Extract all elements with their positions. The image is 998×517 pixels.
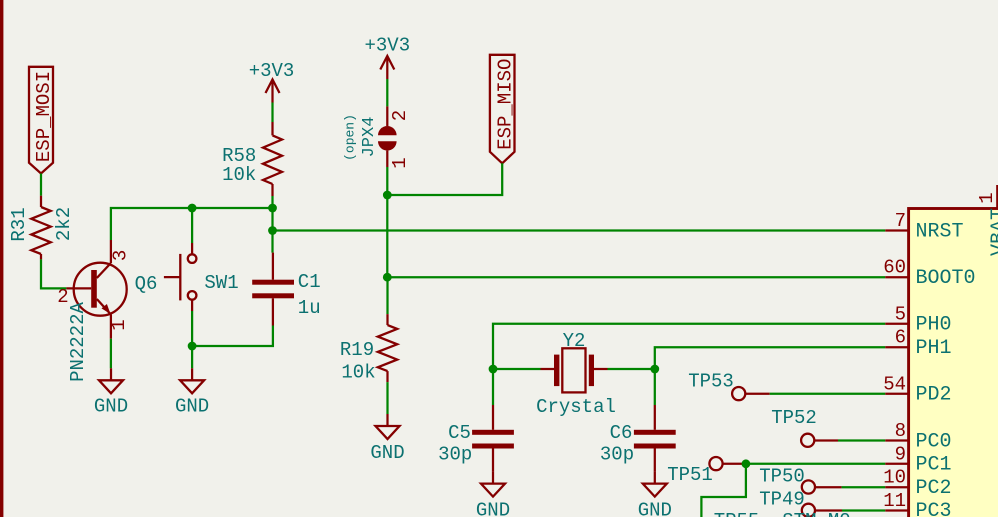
wire PH1 net to crystal right [655, 347, 886, 405]
svg-text:Q6: Q6 [135, 273, 158, 295]
svg-text:TP52: TP52 [771, 407, 817, 429]
svg-text:10k: 10k [341, 362, 375, 384]
svg-text:+3V3: +3V3 [249, 60, 295, 82]
wire +3V3 to JPX4 pin 2 [386, 79, 388, 106]
power +3V3 (above JPX4) [364, 35, 410, 80]
svg-text:TP53: TP53 [688, 371, 734, 393]
svg-text:PH1: PH1 [916, 337, 952, 360]
svg-text:GND: GND [476, 500, 510, 517]
svg-text:ESP_MISO: ESP_MISO [495, 59, 517, 150]
svg-text:10k: 10k [222, 164, 256, 186]
svg-text:SW1: SW1 [204, 272, 238, 294]
svg-text:R31: R31 [8, 207, 30, 241]
global label ESP_MISO [490, 55, 517, 164]
svg-text:54: 54 [883, 373, 906, 395]
wire NRST net [273, 229, 886, 231]
junction node crystal left [489, 365, 498, 374]
svg-text:PN2222A: PN2222A [67, 302, 89, 382]
sheet border left edge [0, 0, 3, 517]
wire TP52 to PC0 [838, 439, 885, 441]
svg-text:1: 1 [108, 319, 130, 330]
svg-text:9: 9 [895, 443, 906, 465]
wire TP53 to PD2 [770, 393, 886, 395]
junction node MISO tap [383, 191, 392, 200]
svg-text:Y2: Y2 [563, 330, 586, 352]
junction node R58 bottom [268, 204, 277, 213]
ground GND (C5) [476, 472, 510, 517]
svg-text:3: 3 [110, 250, 132, 261]
IC pin 10 PC2 [883, 467, 951, 500]
svg-text:C6: C6 [610, 422, 633, 444]
junction node NRST tap [268, 226, 277, 235]
svg-text:1: 1 [976, 192, 998, 203]
wire SW1 bottom to GND node [191, 311, 193, 368]
IC pin 60 BOOT0 [883, 257, 975, 290]
test point TP51 [667, 457, 746, 486]
wire crystal right stub [608, 368, 655, 370]
IC pin 7 NRST [885, 210, 963, 243]
IC pin 9 PC1 [885, 443, 951, 476]
crystal Y2 [536, 330, 616, 418]
label STM_M0 (partially cut at bottom) [782, 510, 850, 517]
svg-text:TP50: TP50 [759, 466, 805, 488]
wire TP50 to PC2 [842, 486, 886, 488]
wire BOOT0 net [387, 276, 885, 278]
svg-text:BOOT0: BOOT0 [916, 267, 976, 290]
svg-text:PD2: PD2 [916, 384, 952, 407]
svg-text:GND: GND [94, 396, 128, 418]
svg-text:(open): (open) [343, 114, 358, 161]
svg-text:1: 1 [389, 157, 411, 168]
svg-text:PH0: PH0 [916, 314, 952, 337]
wire TP49 to PC3 [842, 509, 885, 511]
svg-text:NRST: NRST [916, 220, 964, 243]
ground GND (R19) [370, 414, 404, 464]
IC pin 54 PD2 [883, 373, 951, 406]
ground GND (C6) [638, 472, 672, 517]
wire R19 to GND [386, 382, 388, 414]
svg-text:7: 7 [895, 210, 906, 232]
switch SW1 [164, 243, 239, 311]
junction node crystal right [650, 365, 659, 374]
IC pin 6 PH1 [885, 327, 951, 360]
junction node SW1 bottom [188, 342, 197, 351]
svg-text:+3V3: +3V3 [364, 35, 410, 57]
test point TP52 [771, 407, 838, 447]
svg-text:11: 11 [883, 490, 906, 512]
wire SW1 node to C1 bottom [192, 326, 273, 347]
svg-text:30p: 30p [600, 444, 634, 466]
svg-text:ESP_MOSI: ESP_MOSI [33, 71, 55, 162]
test point TP55 (partially cut at bottom) [714, 510, 760, 517]
svg-text:PC1: PC1 [916, 454, 952, 477]
test point TP49 [759, 489, 842, 517]
wire Q6 emitter to GND [110, 339, 112, 369]
wire TP51 to PC1 [746, 463, 885, 465]
svg-text:JPX4: JPX4 [360, 117, 379, 158]
wire ESP_MISO to node [387, 163, 502, 195]
svg-text:5: 5 [895, 303, 906, 325]
power +3V3 (above R58) [249, 60, 295, 103]
svg-text:R19: R19 [340, 339, 374, 361]
wire TP51 node down to sheet edge [701, 464, 746, 517]
IC pin 5 PH0 [885, 303, 951, 336]
wire R58 bottom through junctions to C1 [271, 196, 273, 253]
svg-text:TP51: TP51 [667, 464, 713, 486]
resistor R19 10k [340, 277, 397, 383]
svg-text:C5: C5 [448, 422, 471, 444]
resistor R31 2k2 [8, 196, 75, 260]
svg-text:1u: 1u [298, 297, 321, 319]
svg-text:10: 10 [883, 467, 906, 489]
capacitor C5 30p [438, 405, 514, 472]
wire Q6 collector to node row [111, 208, 273, 240]
wire crystal left stub [493, 368, 541, 370]
IC pin 1 VBAT (top, partially cut at right) [976, 185, 998, 256]
svg-text:PC0: PC0 [916, 430, 952, 453]
svg-text:8: 8 [895, 420, 906, 442]
ground GND (SW1) [175, 368, 209, 417]
IC pin 8 PC0 [885, 420, 951, 453]
capacitor C1 1u [252, 253, 320, 326]
test point TP53 [688, 371, 770, 401]
junction node SW1 top [188, 204, 197, 213]
wire JPX4 pin1 down to BOOT0 node [386, 167, 388, 277]
svg-text:PC3: PC3 [916, 500, 952, 517]
svg-text:60: 60 [883, 257, 906, 279]
svg-text:C1: C1 [298, 271, 321, 293]
junction node TP51 [742, 459, 751, 468]
IC U1 (STM32 MCU, partially visible at right edge) [909, 209, 998, 517]
ground GND (Q6 emitter) [94, 368, 128, 417]
svg-text:STM_M0: STM_M0 [782, 510, 850, 517]
svg-text:VBAT: VBAT [988, 208, 998, 256]
test point TP50 [759, 466, 841, 494]
svg-text:Crystal: Crystal [536, 396, 616, 418]
wire +3V3 to R58 [271, 103, 273, 123]
svg-text:GND: GND [638, 500, 672, 517]
svg-text:TP49: TP49 [759, 489, 805, 511]
junction node BOOT0 tap [383, 273, 392, 282]
wire SW1 top to node [191, 208, 193, 243]
resistor R58 10k [222, 122, 282, 196]
svg-text:30p: 30p [438, 444, 472, 466]
wire R31 to Q6 base [41, 259, 66, 288]
IC pin 11 PC3 [883, 490, 951, 517]
capacitor C6 30p [600, 405, 676, 472]
svg-text:PC2: PC2 [916, 477, 952, 500]
transistor Q6 PN2222A [57, 240, 157, 382]
svg-text:2k2: 2k2 [53, 207, 75, 241]
wire PH0 net to crystal left [493, 324, 885, 405]
svg-text:2: 2 [389, 110, 411, 121]
solder jumper JPX4 (open) [343, 106, 411, 168]
svg-text:GND: GND [175, 396, 209, 418]
svg-text:GND: GND [370, 442, 404, 464]
global label ESP_MOSI [29, 67, 55, 174]
wire ESP_MOSI to R31 [40, 174, 42, 196]
svg-text:6: 6 [895, 327, 906, 349]
svg-text:TP55: TP55 [714, 510, 760, 517]
